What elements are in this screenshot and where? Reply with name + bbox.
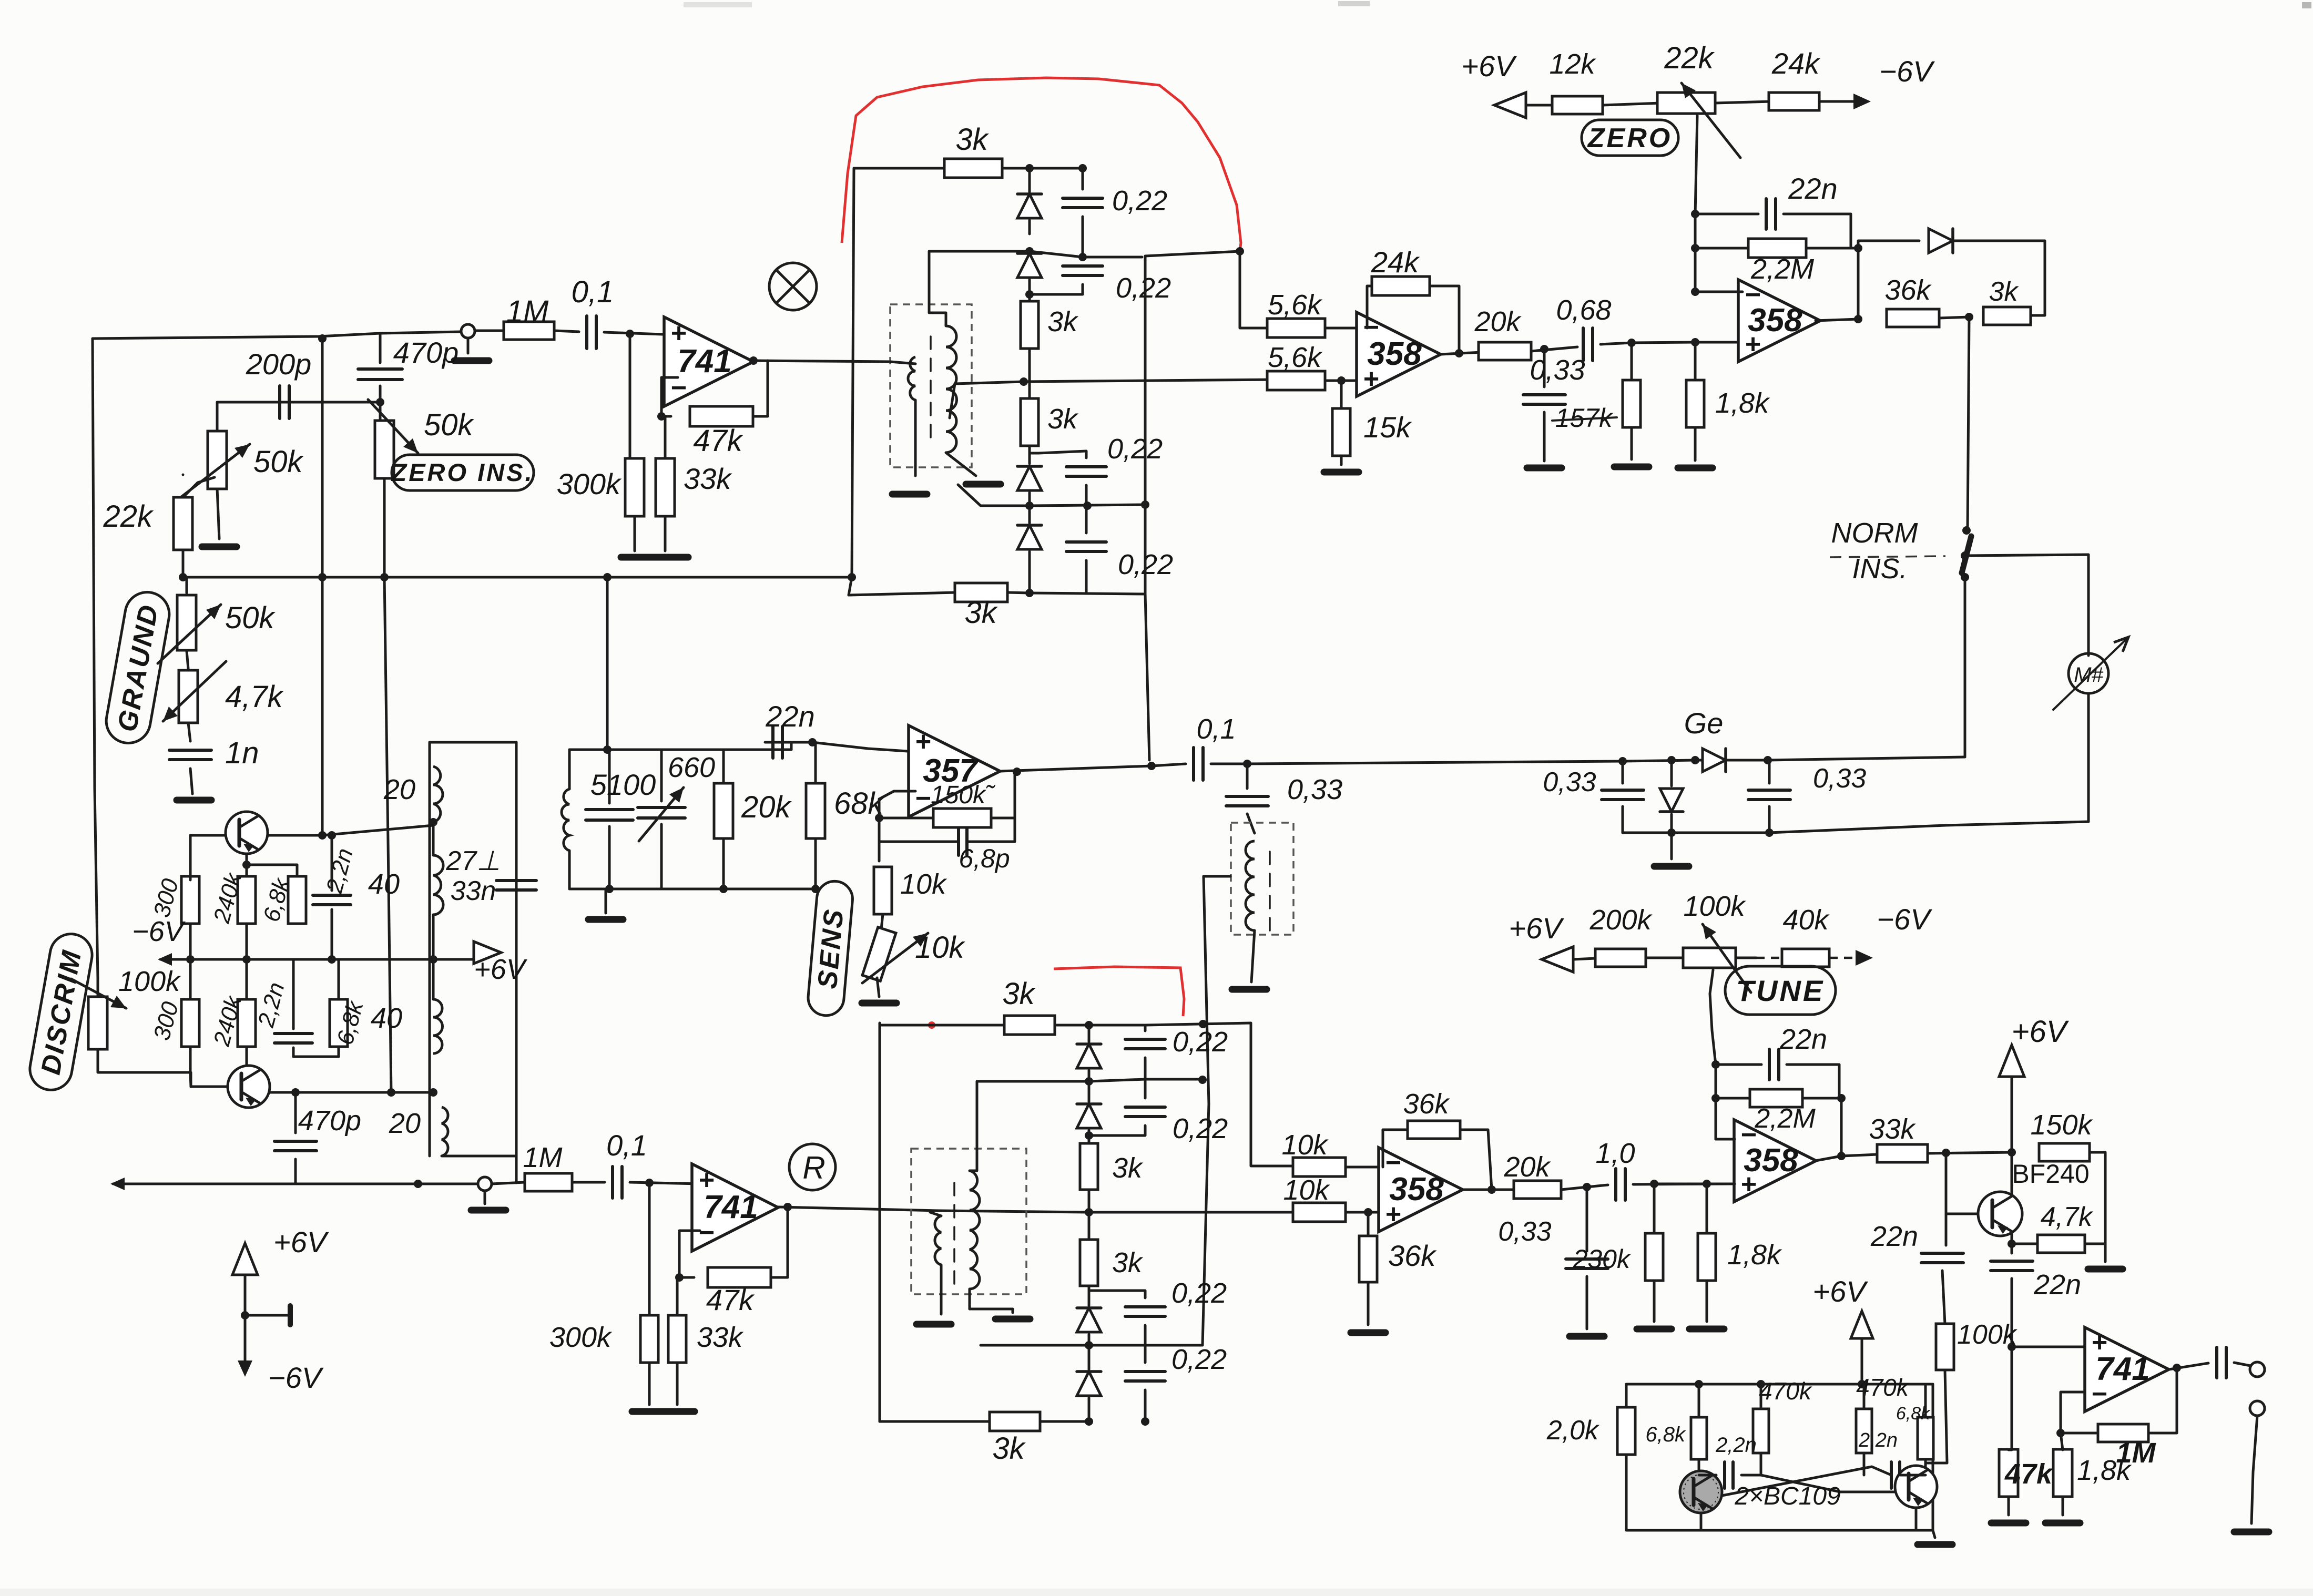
svg-text:36k: 36k xyxy=(1403,1088,1450,1120)
svg-text:10k: 10k xyxy=(1283,1174,1330,1206)
svg-text:47k: 47k xyxy=(2004,1458,2054,1490)
svg-text:6,8p: 6,8p xyxy=(959,844,1010,873)
svg-text:ZERO: ZERO xyxy=(1587,123,1672,154)
svg-text:−6V: −6V xyxy=(268,1361,324,1394)
svg-text:200k: 200k xyxy=(1589,904,1653,936)
svg-text:47k: 47k xyxy=(693,424,744,458)
svg-text:40k: 40k xyxy=(1782,904,1830,936)
svg-text:741: 741 xyxy=(677,343,731,380)
svg-text:2,2n: 2,2n xyxy=(1715,1434,1757,1457)
svg-text:3k: 3k xyxy=(1047,403,1079,435)
svg-text:BF240: BF240 xyxy=(2012,1159,2089,1189)
svg-text:12k: 12k xyxy=(1549,48,1596,80)
svg-text:660: 660 xyxy=(668,752,715,783)
svg-text:3k: 3k xyxy=(1002,977,1036,1011)
svg-text:22n: 22n xyxy=(1870,1221,1918,1252)
svg-text:0,33: 0,33 xyxy=(1530,354,1585,386)
svg-text:5,6k: 5,6k xyxy=(1268,342,1323,373)
svg-text:+6V: +6V xyxy=(2012,1015,2070,1049)
svg-text:36k: 36k xyxy=(1388,1239,1437,1272)
svg-text:40: 40 xyxy=(371,1002,402,1034)
svg-text:22k: 22k xyxy=(1664,41,1715,75)
svg-text:33n: 33n xyxy=(451,876,496,906)
svg-text:741: 741 xyxy=(704,1189,758,1225)
svg-text:50k: 50k xyxy=(253,445,304,479)
svg-text:−6V: −6V xyxy=(1877,903,1932,936)
svg-text:0,22: 0,22 xyxy=(1107,433,1163,465)
svg-text:−6V: −6V xyxy=(132,916,186,947)
svg-text:4,7k: 4,7k xyxy=(225,680,284,714)
svg-text:47k: 47k xyxy=(706,1283,755,1316)
svg-text:150k: 150k xyxy=(2030,1109,2093,1141)
svg-text:22n: 22n xyxy=(2033,1269,2081,1301)
svg-text:50k: 50k xyxy=(424,408,475,442)
svg-text:0,1: 0,1 xyxy=(572,275,614,309)
svg-text:+6V: +6V xyxy=(1461,49,1517,83)
svg-text:358: 358 xyxy=(1389,1171,1444,1208)
svg-text:22k: 22k xyxy=(103,499,154,534)
svg-text:24k: 24k xyxy=(1371,245,1420,279)
svg-text:33k: 33k xyxy=(1869,1113,1916,1145)
svg-text:R: R xyxy=(802,1150,825,1185)
svg-text:3k: 3k xyxy=(1989,277,2020,307)
svg-text:50k: 50k xyxy=(225,601,276,635)
svg-text:230k: 230k xyxy=(1573,1244,1632,1274)
svg-text:3k: 3k xyxy=(1112,1152,1144,1184)
svg-text:0,68: 0,68 xyxy=(1556,294,1611,326)
svg-text:36k: 36k xyxy=(1884,274,1932,306)
svg-text:300k: 300k xyxy=(549,1322,613,1353)
svg-text:4,7k: 4,7k xyxy=(2041,1202,2094,1232)
svg-text:150k˜: 150k˜ xyxy=(931,781,996,809)
svg-text:1n: 1n xyxy=(225,736,259,770)
svg-text:33k: 33k xyxy=(684,462,732,495)
svg-text:27⊥: 27⊥ xyxy=(445,846,500,876)
svg-text:0,22: 0,22 xyxy=(1173,1026,1228,1058)
svg-text:2,0k: 2,0k xyxy=(1546,1415,1600,1446)
svg-text:0,33: 0,33 xyxy=(1543,767,1596,797)
svg-text:200p: 200p xyxy=(246,347,312,381)
svg-text:358: 358 xyxy=(1744,1142,1798,1179)
svg-text:33k: 33k xyxy=(697,1322,744,1353)
svg-text:22n: 22n xyxy=(1788,172,1837,205)
svg-text:1,8k: 1,8k xyxy=(2077,1455,2132,1486)
svg-text:0,33: 0,33 xyxy=(1813,763,1866,794)
svg-text:3k: 3k xyxy=(1047,306,1079,337)
svg-text:24k: 24k xyxy=(1771,47,1821,80)
svg-text:+6V: +6V xyxy=(474,954,528,985)
svg-text:2,2M: 2,2M xyxy=(1754,1103,1816,1134)
svg-text:358: 358 xyxy=(1748,302,1802,339)
svg-text:ZERO INS.: ZERO INS. xyxy=(390,458,534,486)
svg-text:0,22: 0,22 xyxy=(1173,1113,1228,1144)
svg-text:20k: 20k xyxy=(741,790,792,824)
svg-text:3k: 3k xyxy=(992,1431,1026,1466)
svg-text:470k: 470k xyxy=(1759,1377,1812,1405)
svg-text:+6V: +6V xyxy=(1509,912,1564,945)
svg-text:0,22: 0,22 xyxy=(1116,272,1171,304)
svg-text:0,33: 0,33 xyxy=(1287,774,1342,805)
svg-text:15k: 15k xyxy=(1363,411,1412,444)
svg-text:100k: 100k xyxy=(1683,891,1746,922)
svg-text:5100: 5100 xyxy=(590,768,656,801)
svg-text:100k: 100k xyxy=(118,966,181,997)
svg-text:NORM: NORM xyxy=(1831,517,1918,549)
svg-text:0,1: 0,1 xyxy=(1196,713,1236,745)
svg-text:40: 40 xyxy=(368,868,400,900)
svg-text:1,0: 1,0 xyxy=(1595,1138,1635,1169)
svg-text:358: 358 xyxy=(1367,336,1422,372)
svg-text:20: 20 xyxy=(383,774,415,805)
svg-text:470p: 470p xyxy=(393,336,459,369)
svg-text:3k: 3k xyxy=(1112,1247,1144,1278)
svg-text:0,22: 0,22 xyxy=(1171,1344,1227,1375)
svg-text:−6V: −6V xyxy=(1879,55,1935,88)
svg-text:20k: 20k xyxy=(1503,1151,1551,1183)
svg-text:TUNE: TUNE xyxy=(1736,974,1825,1007)
svg-text:1,8k: 1,8k xyxy=(1727,1239,1782,1271)
svg-text:0,33: 0,33 xyxy=(1498,1216,1551,1247)
svg-text:741: 741 xyxy=(2095,1351,2149,1387)
svg-text:Ge: Ge xyxy=(1684,707,1724,740)
svg-text:0,22: 0,22 xyxy=(1171,1277,1227,1309)
svg-text:470p: 470p xyxy=(298,1105,361,1137)
svg-text:20: 20 xyxy=(389,1108,421,1139)
svg-text:10k: 10k xyxy=(1281,1129,1329,1161)
svg-text:22n: 22n xyxy=(765,700,814,733)
svg-text:0,22: 0,22 xyxy=(1112,185,1167,217)
svg-text:1M: 1M xyxy=(506,294,549,329)
svg-text:22n: 22n xyxy=(1779,1024,1827,1055)
svg-text:1M: 1M xyxy=(523,1142,562,1173)
svg-text:INS.: INS. xyxy=(1852,553,1907,585)
svg-text:20k: 20k xyxy=(1474,306,1522,337)
svg-text:300k: 300k xyxy=(557,467,622,500)
svg-text:2,2n: 2,2n xyxy=(1858,1429,1898,1451)
svg-text:+6V: +6V xyxy=(273,1225,329,1259)
svg-text:6,8k: 6,8k xyxy=(1645,1423,1686,1446)
svg-text:10k: 10k xyxy=(900,868,947,900)
svg-text:0,1: 0,1 xyxy=(606,1129,647,1162)
svg-text:1,8k: 1,8k xyxy=(1715,387,1770,419)
svg-text:10k: 10k xyxy=(915,930,966,965)
svg-text:+6V: +6V xyxy=(1812,1275,1868,1308)
svg-text:2×BC109: 2×BC109 xyxy=(1734,1482,1841,1510)
svg-text:5,6k: 5,6k xyxy=(1268,289,1323,321)
svg-text:100k: 100k xyxy=(1957,1319,2018,1350)
svg-text:3k: 3k xyxy=(955,122,989,157)
svg-text:3k: 3k xyxy=(964,596,998,630)
